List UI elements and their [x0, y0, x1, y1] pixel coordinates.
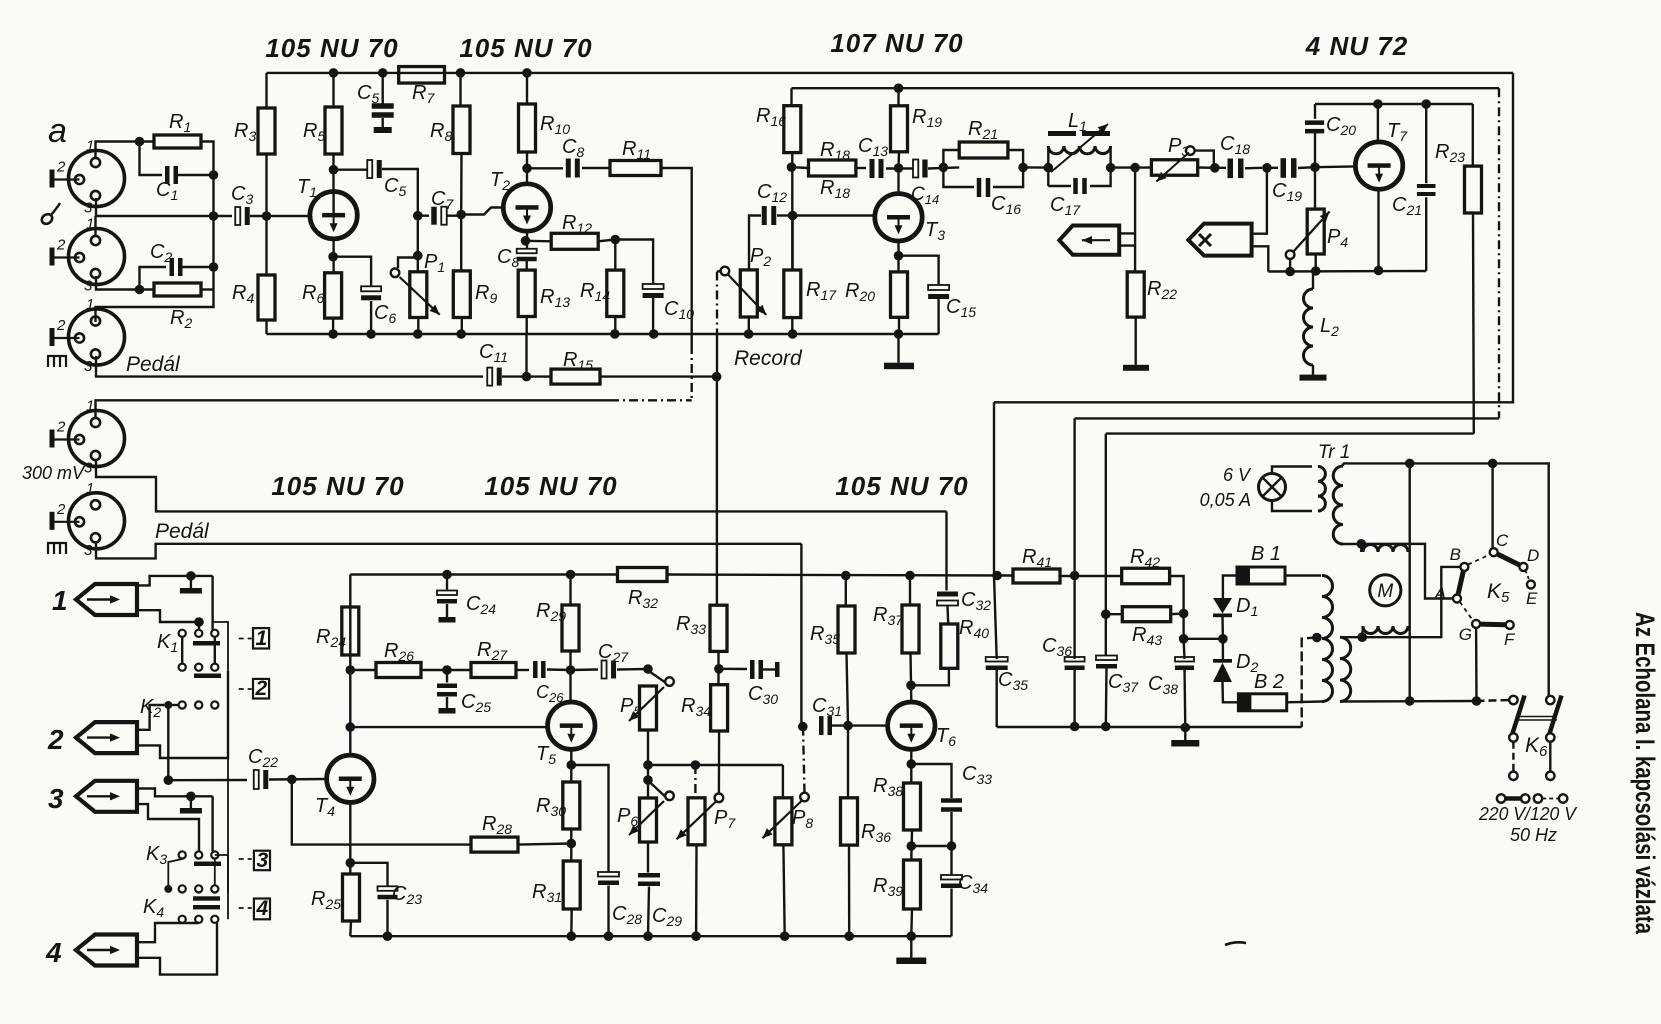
label L2: [1320, 315, 1339, 339]
junction motor coil 2 tap: [1357, 632, 1367, 642]
wire P8 riser: [782, 765, 784, 798]
label 300 mV: [22, 463, 86, 483]
resistor R38: [904, 783, 921, 830]
blade K6 right: [1549, 696, 1562, 736]
junction P4 wiper bottom: [1285, 267, 1295, 277]
junction diode node: [1218, 634, 1228, 644]
terminal K6 left: [1509, 772, 1517, 780]
junction motor coil 1 tap: [1357, 539, 1367, 549]
svg-text:6 V: 6 V: [1223, 465, 1252, 485]
wire R6 bottom: [332, 318, 334, 334]
resistor R23: [1465, 166, 1482, 213]
resistor R16: [784, 106, 801, 153]
wire P1 wiper link: [398, 258, 418, 269]
wire T4 feedback drop: [292, 779, 471, 844]
ground bar T3 stage: [884, 363, 914, 370]
resistor R36: [841, 798, 858, 845]
wire R12 right: [598, 240, 615, 242]
wire K1 riser: [211, 576, 213, 630]
wire P3 to C18: [1215, 167, 1226, 169]
label C14: [911, 184, 939, 207]
junction R21/C16 right: [1018, 163, 1028, 173]
junction C21 top: [1421, 99, 1431, 109]
wire record riser to P2 wiper: [716, 330, 718, 377]
wire jack4 bottom lead: [137, 923, 217, 975]
svg-text:D: D: [1527, 546, 1539, 565]
svg-text:105 NU 70: 105 NU 70: [265, 33, 398, 63]
ground bar T6 stage: [896, 958, 926, 965]
wire pedal2 drop: [800, 544, 802, 727]
wire P1 bottom: [417, 318, 419, 335]
svg-text:F: F: [1504, 630, 1516, 649]
label C26: [536, 682, 564, 705]
wire lamp top lead: [1272, 467, 1312, 474]
junction C6 ground: [366, 329, 376, 339]
label Pedal 1: [126, 353, 181, 376]
label C8c: [497, 246, 519, 270]
label P4: [1327, 226, 1348, 250]
fuse B2: [1238, 694, 1286, 711]
terminal pin2 of XLR input 1 (mic): [50, 170, 80, 188]
wire R43 left: [1106, 613, 1123, 615]
wire C28 bottom: [607, 886, 609, 937]
resistor R12: [551, 233, 598, 249]
label R11: [622, 138, 651, 162]
resistor R28: [471, 837, 518, 852]
wire bottom heater line: [1340, 700, 1477, 703]
svg-text:3: 3: [48, 783, 64, 814]
junction R17 ground: [788, 329, 798, 339]
wire grid jog to T2: [461, 208, 503, 215]
label C33: [962, 763, 992, 787]
junction R19/C13/C14/T3: [894, 163, 904, 173]
label R25: [311, 888, 341, 912]
label C12: [757, 181, 787, 205]
wire R29 top: [569, 575, 571, 606]
wire C14 out: [928, 167, 959, 168]
wire P6 bottom: [647, 842, 649, 873]
wire R14 bottom: [614, 317, 616, 335]
resistor R33: [710, 605, 727, 651]
resistor R34: [711, 685, 728, 731]
label C27: [598, 641, 629, 665]
junction motor vertical bottom: [1405, 696, 1415, 706]
label C16: [991, 193, 1021, 217]
junction tank right: [1106, 163, 1116, 173]
junction heater G node: [1472, 696, 1482, 706]
wire head bottom lead: [1119, 244, 1135, 246]
junction mix grid: [209, 211, 219, 221]
junction P5 top: [643, 664, 653, 674]
label T1: [297, 176, 317, 200]
capacitor C8c: [517, 249, 537, 262]
svg-text:B: B: [1450, 545, 1461, 564]
label R22: [1147, 278, 1177, 302]
wire R16 bottom: [791, 153, 793, 270]
wire lamp bottom lead: [1272, 501, 1312, 512]
wire R11 out dashed: [691, 345, 693, 400]
capacitor C3: [235, 207, 250, 225]
wire R21 right: [1008, 150, 1023, 167]
wire T1 plate inner: [332, 193, 334, 213]
wire C21 column: [1425, 104, 1427, 183]
triode T4: [327, 755, 374, 802]
svg-text:C: C: [1496, 531, 1509, 550]
terminal pin2 of XLR input 2: [50, 248, 80, 266]
label P3: [1168, 135, 1189, 159]
wire R15 to record node: [600, 375, 717, 377]
blade K6 left: [1512, 696, 1525, 736]
wire XLR4 pin1 out dashed end: [610, 399, 692, 401]
wire R25 bottom: [349, 921, 352, 936]
wire C13 to plate node: [886, 167, 913, 169]
wire R23 bottom to W3: [1472, 213, 1475, 434]
wire 0V rail: [997, 726, 1302, 728]
wire C37 bottom: [1105, 667, 1108, 728]
pin labels of XLR 300mV output: [56, 398, 94, 477]
label C18: [1220, 133, 1250, 157]
wire P5 to P6: [647, 730, 649, 798]
bar K3 row: [194, 862, 221, 867]
ground bar power supply: [1171, 740, 1199, 747]
wire R10 top: [526, 73, 528, 104]
wire W2 left vertical: [1073, 418, 1075, 575]
switch K1 row 1: [179, 630, 219, 637]
wire R30-R31: [570, 829, 572, 861]
capacitor C24: [437, 591, 457, 604]
link K5 D-E dashed: [1526, 571, 1530, 581]
junction C38 ground: [1181, 723, 1191, 733]
junction C1 out: [209, 170, 219, 180]
label R33: [676, 613, 706, 637]
label T6: [936, 725, 956, 749]
triode T1: [310, 192, 357, 239]
junction R39 ground: [907, 931, 917, 941]
wire T5 cathode: [570, 749, 572, 782]
pin labels of XLR pedal 2: [56, 480, 94, 559]
wire R12 left: [526, 240, 552, 243]
svg-text:3: 3: [84, 200, 93, 217]
resistor R11: [610, 161, 661, 176]
junction T4 grid: [287, 775, 297, 785]
resistor R17: [784, 270, 801, 318]
potentiometer P1: [391, 269, 440, 318]
wire R2/C2 out: [181, 267, 214, 290]
dashed box 3: [239, 849, 270, 872]
svg-text:0,05 A: 0,05 A: [1200, 490, 1251, 510]
wire T2 cathode: [526, 231, 528, 249]
label R28: [482, 813, 512, 837]
wire P4 bottom: [1314, 254, 1316, 271]
label C23: [392, 883, 422, 907]
label Record: [734, 347, 803, 370]
resistor R41: [1013, 569, 1060, 583]
wire C30 link: [719, 668, 747, 671]
svg-text:107 NU 70: 107 NU 70: [830, 28, 963, 58]
wire C20 to grid node: [1314, 131, 1316, 167]
svg-text:2: 2: [47, 724, 64, 755]
label a (input group): [48, 112, 67, 150]
label R43: [1132, 624, 1162, 648]
resistor R21: [959, 142, 1008, 158]
label R8: [430, 120, 452, 144]
XLR pedal 1: [69, 309, 125, 365]
capacitor C20: [1305, 120, 1324, 133]
lamp 6V: [1259, 474, 1286, 501]
label T3: [925, 219, 945, 243]
wire C6 bottom: [370, 301, 372, 334]
wire R36 bottom: [848, 845, 851, 936]
label K5 A: [1434, 584, 1446, 603]
junction rectifier mid node: [1179, 634, 1189, 644]
wire XLR5 pin3 pedal2: [96, 543, 801, 558]
wire L2 bottom: [1312, 365, 1314, 375]
label K6: [1525, 734, 1548, 760]
capacitor C26: [533, 661, 546, 678]
wire screen to C5b: [334, 168, 369, 170]
junction P2 ground: [744, 329, 754, 339]
wire motor vertical: [1408, 463, 1410, 701]
resistor R37: [902, 605, 919, 653]
label Pedal 2: [155, 520, 210, 543]
label K5: [1487, 580, 1510, 606]
junction jack1 ground: [186, 571, 196, 581]
label K2: [140, 696, 161, 720]
resistor R2: [154, 283, 201, 296]
junction R8 top: [456, 68, 466, 78]
wire pot bus 2: [695, 764, 783, 766]
label T5: [536, 743, 556, 767]
junction R28/R30/R31: [567, 839, 577, 849]
voltage selector: [1497, 794, 1567, 802]
contact K6 mid-left: [1509, 733, 1517, 741]
label R1: [169, 111, 191, 135]
svg-text:3: 3: [257, 849, 269, 872]
wire C3 to grid: [250, 215, 310, 217]
wire K1 row link: [182, 637, 215, 664]
wire W3 left vertical: [1105, 434, 1107, 657]
wire pedal2 to P8 wiper: [803, 727, 805, 793]
label P1: [424, 251, 445, 275]
wire R22 to ground: [1134, 317, 1136, 365]
wire C10 bottom: [652, 297, 654, 334]
title 105 NU 70 (stage 6): [835, 471, 968, 501]
svg-text:4: 4: [256, 897, 269, 920]
label R15: [563, 349, 593, 373]
wire XLR1 pin3 to grid line: [96, 198, 232, 216]
contact K5 C: [1490, 548, 1498, 556]
wire K6 right tail: [1549, 742, 1551, 772]
capacitor C34: [941, 875, 962, 888]
label C38: [1148, 673, 1178, 697]
microphone symbol: [40, 203, 60, 226]
wire R18 to C13: [856, 167, 866, 169]
wire record dashed riser: [716, 272, 718, 331]
junction C23 ground: [383, 931, 393, 941]
capacitor C7: [431, 207, 447, 225]
label C19: [1272, 180, 1302, 204]
junction C24 top: [442, 570, 452, 580]
label K3: [146, 843, 167, 867]
wire jack1 bottom lead: [137, 610, 199, 622]
wire to K6 left: [1477, 700, 1510, 701]
wire C12 left to P2 top: [749, 216, 761, 270]
label C7: [431, 188, 454, 212]
capacitor C8b: [566, 159, 580, 178]
wire R38-C33 tie: [911, 845, 951, 847]
wire C36 bottom: [1073, 668, 1075, 727]
svg-text:Record: Record: [734, 347, 803, 370]
potentiometer P5: [629, 671, 674, 731]
resistor R22: [1127, 272, 1144, 317]
ground bar C24: [439, 617, 456, 623]
resistor R13: [518, 270, 535, 316]
dashed box 2: [239, 677, 269, 700]
link K6 mechanical: [1518, 717, 1558, 721]
wire R4 bottom: [265, 320, 267, 334]
dashed box 4: [239, 897, 270, 920]
label R41: [1022, 546, 1052, 570]
resistor R39: [904, 860, 921, 909]
junction R38/R39/C34: [907, 841, 917, 851]
wire T4 plate: [349, 575, 351, 756]
junction T2 plate out: [522, 164, 532, 174]
sidebar title: [1630, 612, 1660, 935]
resistor R42: [1122, 568, 1170, 584]
wire C8b to R11: [582, 167, 610, 169]
wire G drop: [1475, 628, 1478, 701]
junction R21/C16 left: [939, 163, 949, 173]
wire C18 to node: [1245, 167, 1262, 170]
label C34: [958, 872, 988, 896]
resistor R30: [563, 782, 580, 829]
contact K5 D: [1519, 563, 1527, 571]
wire T6 cathode: [910, 749, 912, 783]
junction P3 wiper tie: [1210, 163, 1220, 173]
wire record line down to R33: [716, 377, 718, 606]
wire C32-R40: [946, 606, 949, 625]
title 4 NU 72 (oscillator): [1305, 31, 1408, 61]
XLR 300mV output: [69, 411, 125, 467]
resistor R19: [891, 106, 908, 152]
label P8: [792, 807, 813, 831]
jack plug 3: [76, 781, 137, 812]
junction XLR1-C1 branch: [135, 137, 145, 147]
resistor R32: [618, 568, 668, 582]
capacitor C22: [254, 770, 269, 789]
svg-text:B 2: B 2: [1254, 671, 1284, 693]
capacitor C18: [1228, 159, 1244, 179]
junction R37 top: [905, 571, 915, 581]
fuse B1: [1237, 567, 1285, 584]
junction P7 riser: [691, 760, 701, 770]
winding lamp secondary: [1318, 467, 1325, 512]
junction T7 plate top: [1373, 99, 1383, 109]
wire R20 bottom: [898, 317, 900, 334]
junction P1 top: [413, 251, 423, 261]
stray pen mark: [1225, 942, 1246, 945]
XLR input 2: [69, 229, 125, 285]
wire R14 top: [614, 240, 616, 271]
label R10: [540, 113, 570, 137]
wire stage ground rail: [267, 333, 939, 335]
wire jack3 top lead: [137, 789, 213, 797]
wire P8 bottom: [783, 845, 784, 936]
junction T5 plate node: [566, 665, 576, 675]
wire C8b link: [527, 167, 563, 169]
wire R29 bottom: [569, 651, 571, 670]
resistor R25: [343, 874, 360, 921]
wire jack2 bottom lead: [137, 671, 228, 758]
wire oscillator bottom: [1268, 270, 1426, 273]
wire to C10: [615, 240, 653, 286]
junction R36 ground: [844, 931, 854, 941]
wire R13 bottom: [526, 317, 528, 335]
svg-text:105 NU 70: 105 NU 70: [459, 33, 592, 63]
capacitor C16: [977, 178, 991, 197]
capacitor C27: [602, 661, 617, 679]
wire C35 top: [994, 576, 997, 660]
wire XLR3 pin3 pedal: [96, 356, 483, 377]
wire C34 column: [950, 846, 952, 875]
label K5 B: [1450, 545, 1461, 564]
label R20: [845, 280, 875, 304]
junction T4 cathode: [346, 858, 356, 868]
capacitor C33: [941, 798, 962, 812]
junction R41 left: [992, 571, 1002, 581]
wire C8c to R13: [526, 261, 528, 270]
wire R19 bottom: [897, 152, 900, 168]
junction C5a top: [378, 68, 388, 78]
wire C24 stub: [446, 575, 448, 590]
wire PS ground stub: [1184, 728, 1186, 741]
label K5 E: [1526, 589, 1538, 608]
switch K4 row 1: [164, 885, 218, 893]
label R21: [968, 118, 998, 142]
wire R39 bottom: [910, 909, 913, 936]
wire R23 column: [1472, 104, 1474, 166]
wire R10 to T2: [526, 152, 528, 184]
wire R27 to C26: [516, 669, 529, 671]
label C17: [1050, 194, 1081, 218]
wire mains top rail: [1343, 463, 1549, 700]
potentiometer P6: [629, 781, 674, 843]
wire K6 left tail: [1512, 742, 1514, 772]
title 107 NU 70 (stage 3): [830, 28, 963, 58]
junction R20 ground: [894, 329, 904, 339]
capacitor C19: [1281, 158, 1297, 178]
jack plug 4: [76, 935, 137, 966]
capacitor C10: [643, 284, 664, 298]
wire T5 plate: [569, 670, 571, 702]
label P2: [750, 245, 771, 269]
label R32: [628, 587, 658, 611]
label T2: [490, 169, 510, 193]
pin labels of XLR input 1 (mic): [56, 138, 94, 217]
svg-text:3: 3: [84, 278, 93, 295]
junction T1 grid divider: [262, 211, 272, 221]
junction C33/C34 tie: [947, 841, 957, 851]
wire C32 column: [945, 511, 947, 590]
junction C feed: [1488, 459, 1498, 469]
wire C12 right: [777, 214, 793, 216]
ground bar of C5a: [374, 127, 392, 133]
label C32: [961, 589, 991, 613]
resistor R6: [325, 273, 342, 318]
resistor R18: [809, 160, 856, 176]
resistor R15: [551, 369, 600, 384]
label R35: [810, 623, 840, 647]
